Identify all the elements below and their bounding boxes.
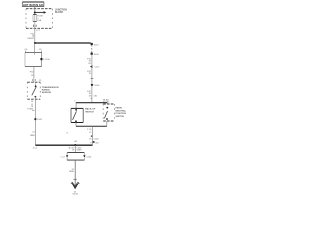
bus labels below junction bbox=[69, 147, 83, 152]
connector terminal at TRS bbox=[33, 79, 43, 82]
wire value label Z1 bbox=[69, 169, 75, 173]
svg-text:C302: C302 bbox=[94, 138, 100, 140]
svg-text:18BK: 18BK bbox=[69, 171, 75, 173]
svg-text:2 C100: 2 C100 bbox=[43, 59, 51, 61]
in-line connector right eyelet bbox=[83, 155, 92, 158]
fuse value label bbox=[37, 16, 43, 22]
svg-text:SWITCH: SWITCH bbox=[116, 116, 125, 118]
svg-text:BACK-UP: BACK-UP bbox=[85, 108, 96, 111]
svg-text:DB/WT: DB/WT bbox=[27, 38, 34, 40]
splice S106 bbox=[91, 53, 100, 56]
wire from block to node A bbox=[34, 28, 36, 43]
svg-text:S146: S146 bbox=[95, 85, 101, 87]
fuse F9 bbox=[33, 15, 37, 22]
svg-text:C204: C204 bbox=[86, 157, 92, 159]
wire from back-up switch down bbox=[75, 123, 77, 127]
svg-text:POSITION: POSITION bbox=[116, 113, 127, 115]
wire value label below C117 bbox=[87, 71, 91, 75]
node A junction bbox=[34, 42, 36, 44]
svg-text:S110: S110 bbox=[94, 44, 100, 46]
connector C100 terminal ticks bbox=[25, 51, 41, 53]
svg-text:BLOCK: BLOCK bbox=[55, 12, 64, 14]
svg-text:C117: C117 bbox=[95, 67, 101, 69]
wire value label above bus corner bbox=[30, 131, 36, 137]
junction block (dashed outline) bbox=[26, 9, 53, 29]
wire split loop to eyelets bbox=[67, 153, 84, 156]
node bus junction in block bbox=[34, 12, 36, 14]
wire from fuse to block edge bbox=[34, 22, 36, 29]
svg-text:TRANSMISSION: TRANSMISSION bbox=[42, 86, 59, 89]
switch inside park/neutral position switch bbox=[104, 107, 108, 120]
connector flank labels bbox=[89, 138, 99, 144]
wire from TRS down to ground bus bbox=[34, 99, 36, 145]
svg-text:18BK: 18BK bbox=[30, 135, 36, 137]
node ground bus junction bbox=[74, 144, 76, 146]
wire dashed between splices bbox=[91, 45, 93, 53]
wire value label to TRS bbox=[30, 72, 34, 77]
svg-text:SWITCH: SWITCH bbox=[85, 111, 94, 113]
wire T split to both switches bbox=[76, 103, 108, 109]
in-line connector on ground wire bbox=[91, 135, 93, 137]
connector tick right column bbox=[91, 77, 94, 79]
wire value label F32 bbox=[27, 34, 35, 40]
wire value label above C81 bbox=[87, 91, 91, 95]
wire value label F32 right column bbox=[87, 58, 91, 65]
ground bus wire bbox=[35, 144, 92, 146]
wire rejoin loop bbox=[67, 158, 84, 160]
svg-text:PARK/: PARK/ bbox=[116, 107, 123, 110]
in-line connector C117 bbox=[90, 65, 100, 68]
wire from HOT IN RUN into block bbox=[34, 7, 36, 15]
wire branch to splice S110 bbox=[35, 42, 91, 44]
wire from PNP switch down bbox=[106, 121, 108, 126]
wire joining both switches bbox=[76, 125, 107, 127]
svg-text:S106: S106 bbox=[94, 54, 100, 56]
wire from switches to ground bus bbox=[92, 126, 94, 145]
transmission range sensor (dashed box) bbox=[27, 82, 40, 99]
ground G104 symbol bbox=[71, 182, 80, 188]
back-up lamp switch box bbox=[71, 108, 83, 122]
splice S110 bbox=[91, 43, 100, 46]
park/neutral position switch box (dashed) bbox=[103, 104, 114, 121]
park/neutral position switch label bbox=[116, 107, 127, 118]
wire value label below TRS bbox=[27, 104, 34, 110]
svg-text:S142: S142 bbox=[37, 119, 43, 121]
svg-text:NEUTRAL: NEUTRAL bbox=[116, 109, 127, 112]
connector tick below label bbox=[32, 109, 34, 111]
wire from S106 down to C117 bbox=[91, 55, 93, 103]
wire to ground bbox=[74, 160, 76, 186]
in-line connector left eyelet bbox=[60, 155, 68, 158]
svg-text:G104: G104 bbox=[73, 194, 79, 196]
connector C100 callout square bbox=[40, 58, 42, 60]
splice S142 bbox=[34, 118, 42, 121]
transmission range sensor label bbox=[42, 86, 59, 94]
junction block label bbox=[55, 10, 67, 14]
wire inside C100 bbox=[33, 43, 35, 55]
ground label G104 bbox=[73, 191, 79, 195]
switch inside TRS bbox=[32, 82, 37, 99]
svg-text:RANGE: RANGE bbox=[42, 89, 50, 92]
connector C81 bbox=[88, 95, 98, 98]
connector tick above ground bbox=[74, 178, 77, 180]
svg-text:SENSOR: SENSOR bbox=[42, 92, 52, 94]
switch inside back-up lamp switch bbox=[73, 109, 77, 122]
svg-text:10 C82: 10 C82 bbox=[103, 102, 111, 104]
connector C100 terminal labels bbox=[25, 49, 43, 51]
wire from bus junction down bbox=[74, 145, 76, 152]
wire from C100 to TRS bbox=[33, 67, 35, 83]
svg-text:HOT IN RUN A21: HOT IN RUN A21 bbox=[23, 3, 44, 7]
splice S146 bbox=[91, 84, 100, 87]
connector terminal at block exit bbox=[34, 25, 37, 27]
svg-text:18BK: 18BK bbox=[76, 150, 82, 152]
wire arrow feed to other circuits bbox=[35, 11, 46, 14]
power label box HOT IN RUN bbox=[22, 2, 44, 7]
connector C100 box bbox=[25, 53, 42, 67]
svg-text:10A: 10A bbox=[37, 19, 41, 22]
back-up lamp switch label bbox=[85, 108, 96, 114]
